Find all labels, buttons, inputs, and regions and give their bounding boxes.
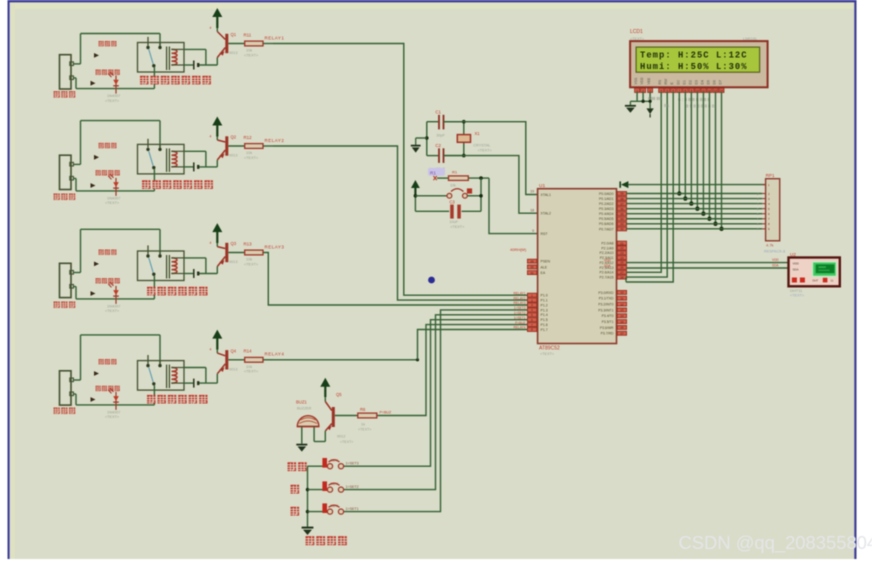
svg-text:4: 4: [210, 135, 212, 139]
svg-text:<TEXT>: <TEXT>: [105, 99, 120, 103]
svg-text:Q3: Q3: [231, 241, 237, 246]
svg-text:P=BUZ: P=BUZ: [380, 411, 392, 415]
svg-text:15: 15: [620, 320, 624, 324]
wire LCD VSS VDD VEE: [630, 92, 650, 103]
svg-text:21: 21: [620, 241, 624, 245]
terminal connector J2: [60, 155, 74, 189]
svg-text:P1.4: P1.4: [541, 313, 548, 317]
svg-text:30: 30: [530, 265, 534, 269]
svg-text:R11: R11: [244, 32, 252, 37]
wire RW: [626, 92, 667, 277]
svg-text:<TEXT>: <TEXT>: [244, 53, 259, 57]
svg-text:33: 33: [620, 222, 624, 226]
svg-text:XTAL2: XTAL2: [541, 212, 551, 216]
polarity marks 2: [91, 155, 100, 188]
label jiedianjiekou 2: [96, 170, 120, 175]
svg-text:37: 37: [620, 202, 624, 206]
resistor R12: [228, 135, 263, 160]
svg-text:VDD: VDD: [793, 262, 800, 266]
svg-text:D6: D6: [713, 80, 717, 84]
svg-text:P2.2/A10: P2.2/A10: [600, 251, 614, 255]
resistor R13: [228, 241, 263, 266]
svg-text:Q1: Q1: [231, 32, 237, 37]
svg-text:16: 16: [620, 326, 624, 330]
svg-text:23: 23: [620, 251, 624, 255]
battery cell B1: [194, 61, 198, 70]
svg-text:38: 38: [620, 197, 624, 201]
wire R11 out: [263, 43, 273, 45]
crystal X1: [457, 120, 492, 158]
svg-text:P3.4/T0: P3.4/T0: [602, 314, 614, 318]
svg-text:BUZZER: BUZZER: [297, 406, 312, 410]
svg-text:19: 19: [530, 190, 534, 194]
transistor Q4: [210, 348, 238, 374]
svg-text:39: 39: [620, 192, 624, 196]
sensor U2 DHT11: [789, 252, 840, 286]
svg-text:P0.5/AD5: P0.5/AD5: [599, 217, 614, 221]
svg-text:Humi: H:50% L:30%: Humi: H:50% L:30%: [640, 62, 748, 72]
battery cell B4: [194, 379, 198, 388]
svg-text:13: 13: [620, 308, 624, 312]
transistor Q2: [210, 135, 238, 161]
svg-text:1k: 1k: [361, 423, 365, 427]
svg-text:RW: RW: [664, 78, 668, 84]
wire net RELAY2 route: [273, 146, 527, 300]
U1 pins 1-8 P1.0-P1.7: [527, 293, 547, 332]
svg-text:C1: C1: [435, 109, 441, 114]
svg-text:D3: D3: [694, 80, 698, 84]
label wendu shezhi: [306, 536, 347, 545]
svg-text:10k: 10k: [246, 151, 252, 155]
svg-text:VDD: VDD: [640, 77, 644, 85]
terminal connector J3: [60, 263, 74, 297]
svg-text:Q4: Q4: [231, 348, 237, 353]
svg-text:36: 36: [620, 207, 624, 211]
svg-text:RELAY4: RELAY4: [265, 352, 285, 357]
label jiedianjiekou 3: [96, 278, 120, 283]
wire reset top rail: [468, 176, 489, 196]
svg-text:P=BUZ: P=BUZ: [515, 321, 525, 325]
svg-text:18: 18: [530, 208, 534, 212]
svg-text:RELAY3: RELAY3: [514, 301, 526, 305]
svg-text:<TEXT>: <TEXT>: [244, 156, 259, 160]
svg-text:P3.1/TXD: P3.1/TXD: [599, 297, 614, 301]
svg-text:RELAY2: RELAY2: [265, 138, 285, 143]
push button KEY2 plus: [308, 481, 359, 492]
svg-text:P2.6/A14: P2.6/A14: [600, 271, 614, 275]
relay K3: [138, 245, 185, 299]
LCD1 pins 1-14: [635, 88, 724, 93]
svg-text:U1: U1: [539, 183, 545, 189]
label jiedianchi 3: [99, 250, 117, 255]
wire XTAL2: [444, 156, 538, 214]
svg-text:D2: D2: [109, 173, 114, 177]
svg-text:CRYSTAL: CRYSTAL: [473, 143, 490, 147]
resistor R14: [228, 349, 263, 374]
svg-text:P1.3: P1.3: [541, 308, 548, 312]
svg-text:<TEXT>: <TEXT>: [478, 149, 493, 153]
svg-text:P3.6/WR: P3.6/WR: [600, 326, 614, 330]
svg-text:32: 32: [620, 227, 624, 231]
svg-text:4: 4: [210, 348, 212, 352]
net labels at P1 pins: [514, 291, 526, 329]
svg-text:<TEXT>: <TEXT>: [244, 370, 259, 374]
label device 4: [54, 408, 76, 414]
battery cell B3: [194, 269, 198, 278]
svg-text:P1.6: P1.6: [541, 323, 548, 327]
svg-text:VDD: VDD: [604, 258, 611, 262]
svg-text:P0.1/AD1: P0.1/AD1: [599, 197, 614, 201]
power arrow VCC block 4: [212, 330, 222, 350]
svg-text:34: 34: [620, 217, 624, 221]
svg-text:1=SET1: 1=SET1: [514, 316, 526, 320]
svg-text:22: 22: [620, 246, 624, 250]
wire coil to cell 2: [184, 151, 217, 167]
U1 pins 10-17 P3.0-P3.7: [598, 290, 626, 335]
label jiedianchi 1: [99, 41, 117, 46]
svg-text:P0.7/AD7: P0.7/AD7: [599, 227, 614, 231]
transistor Q1: [210, 26, 238, 58]
svg-text:DHT: DHT: [813, 279, 819, 283]
svg-text:31: 31: [530, 271, 534, 275]
svg-text:10k: 10k: [246, 258, 252, 262]
reset button: [415, 188, 481, 198]
polarity marks 3: [91, 262, 100, 296]
svg-text:VEE: VEE: [647, 77, 651, 85]
label jia: [291, 485, 300, 494]
svg-text:24: 24: [620, 256, 624, 260]
svg-text:<TEXT>: <TEXT>: [340, 440, 353, 444]
wire XTAL1: [444, 122, 538, 195]
label switch-label dehumidifier: [142, 180, 213, 189]
capacitor C1: [427, 109, 464, 137]
svg-text:P2.1/A9: P2.1/A9: [601, 246, 613, 250]
svg-text:1N4007: 1N4007: [107, 305, 120, 309]
resistor pack RP1: [757, 173, 785, 254]
svg-text:D3: D3: [109, 281, 114, 285]
LCD display LCD1 body: [630, 41, 768, 87]
label net left of MCU: [510, 247, 527, 252]
net label RELAY4: [265, 352, 285, 357]
power arrow VCC reset: [411, 180, 420, 195]
label AT89C52: [539, 345, 560, 356]
transistor Q5: [314, 392, 353, 444]
wire RS: [626, 92, 661, 273]
svg-text:RELAY2: RELAY2: [514, 296, 526, 300]
svg-text:DHT11: DHT11: [790, 288, 803, 293]
svg-text:1=SET3: 1=SET3: [514, 306, 526, 310]
svg-text:1N4007: 1N4007: [107, 94, 120, 98]
svg-text:9013: 9013: [229, 51, 237, 55]
label BUZ1: [296, 399, 312, 410]
svg-text:C2: C2: [435, 143, 441, 148]
wire R14 out: [263, 359, 273, 361]
capacitor C2: [427, 143, 464, 171]
svg-text:2: 2: [220, 261, 222, 265]
svg-text:2: 2: [220, 52, 222, 56]
wire loop block 2: [73, 121, 160, 165]
svg-text:R13: R13: [244, 241, 253, 246]
svg-text:11: 11: [620, 296, 623, 300]
svg-text:<TEXT>: <TEXT>: [540, 352, 555, 356]
U1 pins 21-28 P2.0-P2.7: [600, 241, 627, 279]
svg-text:P1.5: P1.5: [541, 318, 548, 322]
U1 pins 29-31 PSEN ALE EA: [527, 259, 550, 275]
resistor R1: [433, 169, 468, 187]
microcontroller U1 AT89C52 body: [538, 183, 617, 344]
svg-text:P1.0: P1.0: [541, 294, 548, 298]
power arrow VCC buzzer: [320, 378, 330, 397]
svg-text:P1.1: P1.1: [541, 299, 548, 303]
svg-text:12: 12: [620, 302, 624, 306]
svg-text:R1: R1: [452, 169, 458, 174]
svg-text:C3: C3: [449, 199, 455, 204]
svg-text:CSDN @qq_2083558048: CSDN @qq_2083558048: [679, 532, 872, 554]
wire C1C2 left junction: [425, 122, 429, 156]
svg-text:1N4007: 1N4007: [107, 197, 120, 201]
label device 3: [54, 302, 76, 308]
label device 1: [54, 91, 76, 97]
svg-text:10k: 10k: [450, 184, 456, 188]
svg-text:<TEXT>: <TEXT>: [244, 262, 259, 266]
relay K2: [138, 139, 185, 191]
svg-text:XTAL1: XTAL1: [541, 193, 551, 197]
label jian: [291, 507, 300, 516]
svg-text:RELAY4: RELAY4: [514, 326, 526, 330]
svg-text:VDD: VDD: [772, 258, 779, 262]
blue dot mark: [428, 277, 435, 284]
svg-text:P0.0/AD0: P0.0/AD0: [599, 192, 614, 196]
labels under LCD data wires: [648, 96, 716, 109]
resistor R11: [228, 32, 263, 57]
svg-text:ALE: ALE: [541, 265, 548, 269]
svg-text:LCD1: LCD1: [630, 29, 643, 35]
svg-text:SDA: SDA: [604, 264, 611, 268]
wire bottom rail block 1: [73, 78, 154, 89]
svg-text:888 88.: 888 88.: [648, 96, 663, 101]
svg-text:D4: D4: [109, 387, 114, 391]
LCD1 screen: [636, 47, 760, 72]
wire net KEY1 route: [342, 320, 528, 467]
label jiedianjiekou 4: [96, 386, 120, 391]
svg-text:<TEXT>: <TEXT>: [105, 309, 120, 313]
svg-text:R6: R6: [360, 407, 366, 412]
ground at LCD: [625, 101, 636, 113]
svg-text:4: 4: [210, 241, 212, 245]
wire P0 bus to RP1: [626, 194, 762, 229]
push button KEY3 minus: [308, 503, 359, 514]
wire keys rail: [306, 466, 309, 527]
wire reset left: [414, 194, 418, 211]
label switch-label heater: [147, 287, 208, 296]
buzzer BUZ1: [297, 416, 319, 444]
svg-text:RP1: RP1: [766, 173, 775, 178]
ground at keys: [302, 528, 314, 535]
svg-text:P1.7: P1.7: [541, 328, 548, 332]
battery cell B2: [194, 162, 198, 171]
svg-text:P0.3/AD3: P0.3/AD3: [599, 207, 614, 211]
resistor R6: [335, 407, 392, 431]
svg-text:D4: D4: [700, 80, 704, 84]
power arrow VCC block 1: [212, 8, 222, 28]
wire coil to cell 1: [184, 49, 217, 65]
svg-text:P3.2/INT0: P3.2/INT0: [598, 302, 613, 306]
svg-text:<TEXT>: <TEXT>: [450, 225, 465, 229]
wire loop block 3: [73, 229, 160, 272]
svg-text:2: 2: [220, 155, 222, 159]
svg-text:10k: 10k: [246, 49, 252, 53]
wire bottom rail block 2: [73, 178, 154, 191]
ground at crystal: [411, 138, 427, 153]
svg-text:29: 29: [530, 259, 534, 263]
svg-text:28: 28: [620, 275, 624, 279]
LCD1 pin names: [634, 77, 722, 85]
polarity marks 4: [91, 371, 100, 402]
wire net BUZ route: [377, 325, 528, 416]
svg-text:EA: EA: [541, 271, 546, 275]
wire net KEY2 route: [342, 315, 528, 490]
svg-text:P3.7/RD: P3.7/RD: [601, 332, 614, 336]
svg-text:1=SET2: 1=SET2: [346, 485, 359, 489]
label shezhi: [288, 462, 307, 471]
terminal connector J1: [60, 55, 74, 89]
svg-text:RELAY1: RELAY1: [514, 291, 526, 295]
svg-text:P0.2/AD2: P0.2/AD2: [599, 202, 614, 206]
svg-text:2: 2: [220, 368, 222, 372]
svg-text:Q2: Q2: [231, 135, 237, 140]
svg-text:1=SET2: 1=SET2: [514, 311, 526, 315]
power arrow VCC RP1: [620, 181, 765, 188]
wire bottom rail block 3: [73, 287, 154, 299]
U1 pin 9 RST: [532, 229, 548, 236]
push button KEY1 set: [308, 458, 359, 469]
svg-text:10uF: 10uF: [449, 220, 458, 224]
label R1 highlighted: [428, 168, 445, 176]
wire net KEY3 route: [342, 310, 528, 512]
label jiedianchi 4: [99, 359, 117, 364]
terminal connector J4: [60, 371, 74, 405]
wire RST: [489, 178, 538, 234]
svg-text:AT89C52: AT89C52: [539, 345, 560, 351]
ground at buzzer: [296, 445, 307, 452]
wire E: [626, 92, 673, 282]
wire LCD data bus D0-D7: [677, 92, 724, 231]
svg-text:<TEXT>: <TEXT>: [105, 201, 120, 205]
wire net RELAY3 route: [263, 253, 527, 306]
svg-text:D2: D2: [688, 80, 692, 84]
wire bottom rail block 4: [73, 394, 154, 405]
U1 pin 18 XTAL2: [530, 208, 551, 215]
svg-text:1=SET1: 1=SET1: [346, 507, 359, 511]
wire net RELAY4 route: [273, 330, 527, 362]
svg-text:17: 17: [620, 331, 624, 335]
svg-text:<TEXT>: <TEXT>: [358, 427, 371, 431]
svg-text:26: 26: [620, 266, 624, 270]
svg-text:RESPACK-8: RESPACK-8: [764, 249, 785, 253]
label device 2: [54, 194, 76, 200]
svg-text:BUZ1: BUZ1: [296, 399, 307, 404]
svg-text:<TEXT>: <TEXT>: [105, 415, 120, 419]
svg-text:4.7k: 4.7k: [766, 243, 774, 248]
wire net RELAY1 route: [273, 44, 527, 296]
svg-text:RS: RS: [658, 79, 662, 84]
svg-text:14: 14: [620, 314, 624, 318]
svg-text:27: 27: [620, 270, 624, 274]
svg-text:PSEN: PSEN: [541, 260, 551, 264]
wire DHT11 VDD: [604, 258, 789, 262]
svg-text:6:8888888: 6:8888888: [678, 97, 711, 102]
wire R12 out: [263, 145, 273, 147]
svg-text:R14: R14: [244, 349, 253, 354]
svg-text:D1: D1: [682, 80, 686, 84]
svg-text:R1: R1: [430, 170, 436, 175]
svg-text:9012: 9012: [337, 435, 345, 439]
U1 pin 19 XTAL1: [530, 190, 551, 197]
svg-text:25: 25: [620, 261, 624, 265]
svg-text:P3.5/T1: P3.5/T1: [602, 320, 614, 324]
net label RELAY3: [265, 244, 285, 249]
svg-text:RST: RST: [541, 232, 549, 236]
watermark CSDN: [679, 532, 872, 554]
svg-text:9: 9: [532, 229, 534, 233]
svg-text:RELAY1: RELAY1: [265, 35, 285, 40]
net label RELAY1: [265, 35, 285, 40]
svg-text:R12: R12: [244, 135, 253, 140]
svg-text:1=SET3: 1=SET3: [346, 461, 359, 465]
svg-text:D1: D1: [109, 71, 114, 75]
power arrow VCC block 2: [212, 117, 222, 137]
svg-text:P2.0/A8: P2.0/A8: [601, 242, 613, 246]
label DHT11: [790, 288, 805, 298]
svg-text:SDA: SDA: [793, 267, 799, 271]
svg-text:9013: 9013: [229, 367, 237, 371]
wire loop block 4: [73, 335, 160, 380]
svg-text:P3.3/INT1: P3.3/INT1: [598, 308, 613, 312]
relay K1: [138, 37, 185, 89]
svg-text:10: 10: [620, 291, 624, 295]
wire loop block 1: [73, 34, 160, 64]
svg-text:RELAY3: RELAY3: [265, 244, 285, 249]
svg-text:D7: D7: [719, 80, 723, 84]
svg-text:Temp: H:25C L:12C: Temp: H:25C L:12C: [640, 51, 748, 61]
label LCD1: [630, 29, 758, 41]
transistor Q3: [210, 241, 238, 267]
svg-text:11: 11: [831, 279, 834, 283]
relay K4: [138, 355, 185, 405]
wire coil to cell 3: [184, 258, 217, 274]
svg-text:P1.2: P1.2: [541, 303, 548, 307]
power arrow VCC block 3: [212, 223, 222, 243]
VEE pull-down arrow: [646, 100, 653, 118]
wire coil to cell 4: [184, 368, 217, 384]
svg-text:P0.6/AD6: P0.6/AD6: [599, 222, 614, 226]
svg-text:35: 35: [620, 212, 624, 216]
svg-text:U2: U2: [790, 252, 796, 257]
net label RELAY2: [265, 138, 285, 143]
label jiedianjiekou 1: [96, 70, 120, 75]
svg-text:88.: 88.: [664, 103, 670, 108]
svg-text:D0: D0: [676, 80, 680, 84]
svg-text:9013: 9013: [229, 154, 237, 158]
svg-text:10k: 10k: [246, 365, 252, 369]
label switch-label humidifier: [140, 76, 211, 85]
svg-text:Q5: Q5: [336, 392, 342, 397]
label jiedianchi 2: [99, 143, 117, 148]
svg-text:30pF: 30pF: [436, 134, 445, 138]
svg-text:1N4007: 1N4007: [107, 411, 120, 415]
svg-text:D5: D5: [706, 80, 710, 84]
LED D2: [105, 173, 120, 205]
